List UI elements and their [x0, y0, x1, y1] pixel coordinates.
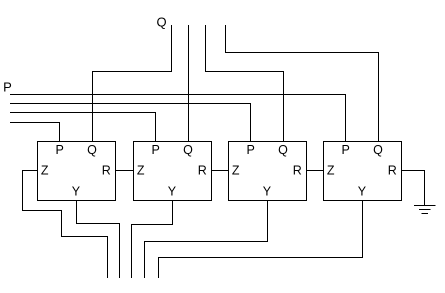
wire net Q4: top stub down, right, to U4 pin Q	[226, 25, 379, 142]
wire net Y2: U2 pin Y down, left, to bottom stub	[132, 201, 173, 279]
svg-text:Q: Q	[373, 143, 383, 157]
svg-text:R: R	[293, 164, 302, 178]
wire net Y4: U4 pin Y down, left, to bottom stub	[159, 201, 363, 279]
wire net Y3: U3 pin Y down, left, to bottom stub	[145, 201, 268, 279]
svg-text:Z: Z	[232, 164, 240, 178]
wire net Q2: top stub straight down to U2 pin Q	[188, 25, 190, 142]
wire net Z1: U1 pin Z stepped down to bottom stub	[23, 171, 108, 279]
wire net Q3: top stub down, right, to U3 pin Q	[206, 25, 284, 142]
wire net P to U2 pin P	[10, 113, 156, 143]
block U3	[229, 142, 307, 201]
svg-text:R: R	[198, 164, 207, 178]
svg-text:Q: Q	[156, 15, 166, 30]
svg-text:R: R	[388, 164, 397, 178]
ground	[414, 206, 436, 214]
svg-text:Z: Z	[137, 164, 145, 178]
block U4	[324, 142, 402, 201]
wire net Y1: U1 pin Y down, right, to bottom stub	[77, 201, 120, 279]
wire net P to U3 pin P	[10, 104, 251, 143]
wire net Q1: top stub down, left, to U1 pin Q	[93, 25, 172, 142]
wire U1 R to U2 Z	[116, 170, 134, 172]
wire U4 R to ground	[402, 171, 425, 206]
wire net P to U1 pin P	[10, 123, 60, 143]
block U2	[134, 142, 212, 201]
svg-text:Y: Y	[263, 185, 272, 199]
svg-text:R: R	[102, 164, 111, 178]
svg-text:P: P	[152, 143, 160, 157]
wire U2 R to U3 Z	[212, 170, 229, 172]
svg-text:P: P	[56, 143, 64, 157]
svg-text:Y: Y	[72, 185, 81, 199]
svg-text:Q: Q	[278, 143, 288, 157]
svg-text:P: P	[3, 80, 12, 95]
svg-text:Y: Y	[358, 185, 367, 199]
svg-text:Z: Z	[327, 164, 335, 178]
wire U3 R to U4 Z	[307, 170, 324, 172]
svg-text:P: P	[247, 143, 255, 157]
svg-text:P: P	[342, 143, 350, 157]
node Q label	[156, 15, 166, 30]
node P label	[3, 80, 12, 95]
svg-text:Y: Y	[168, 185, 177, 199]
block U1	[38, 142, 116, 201]
svg-text:Q: Q	[183, 143, 193, 157]
svg-text:Q: Q	[87, 143, 97, 157]
wire net P to U4 pin P	[10, 95, 346, 143]
svg-text:Z: Z	[41, 164, 49, 178]
